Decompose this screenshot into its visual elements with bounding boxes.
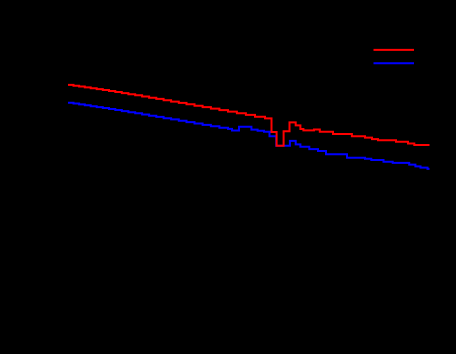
- red step curve (upper band light curve): [68, 85, 430, 146]
- blue step curve (lower band light curve): [68, 103, 430, 169]
- legend red line swatch: [374, 49, 415, 51]
- legend blue line swatch: [374, 62, 415, 64]
